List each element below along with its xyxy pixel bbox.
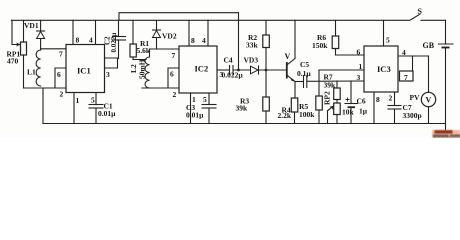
inductor L2 (129, 49, 150, 88)
resistor R4 (278, 98, 298, 124)
resistor R5 (299, 96, 322, 124)
pin 3 label IC3 (357, 73, 361, 82)
pin 6 box IC1 (55, 68, 66, 88)
svg-text:1: 1 (76, 96, 80, 105)
pin 1 wire IC1 (74, 93, 80, 124)
pin 8 wire IC1 (73, 20, 80, 44)
svg-text:7: 7 (59, 50, 63, 59)
wire top rail right of switch to battery (421, 19, 446, 21)
wire ground drop from bus (42, 88, 44, 124)
svg-text:5: 5 (386, 36, 390, 45)
svg-text:wwww.mmmm: wwww.mmmm (432, 134, 460, 139)
pin 3 wire IC2 (217, 70, 230, 79)
svg-text:GB: GB (423, 41, 435, 50)
svg-text:470: 470 (7, 57, 19, 66)
pin 5 wire IC3 (384, 20, 391, 46)
svg-text:V: V (426, 96, 432, 105)
svg-text:3: 3 (106, 70, 110, 79)
pin 8 wire IC3 (374, 92, 380, 124)
resistor R2 (246, 20, 269, 70)
capacitor C6 electrolytic (345, 81, 368, 124)
svg-text:4: 4 (202, 36, 206, 45)
wire IC2 pin7 (150, 49, 180, 60)
capacitor C7 on pin 2 (388, 92, 422, 124)
inductor L1 (27, 50, 41, 86)
svg-text:4: 4 (89, 36, 93, 45)
svg-text:3300p: 3300p (403, 111, 422, 120)
wire bypass drop to VD3 node (238, 20, 240, 70)
wire pin1 node vertical to R5 (318, 70, 320, 96)
svg-text:50mH: 50mH (138, 59, 147, 79)
svg-text:33k: 33k (246, 41, 259, 50)
pin 8 wire IC2 (189, 20, 195, 46)
capacitor C2 (104, 20, 126, 58)
svg-text:6: 6 (170, 70, 174, 79)
svg-text:IC3: IC3 (377, 64, 391, 74)
svg-text:6: 6 (57, 70, 61, 79)
pin 6 box IC2 (168, 68, 179, 88)
svg-text:2: 2 (389, 94, 393, 103)
node junction dots (237, 69, 267, 72)
wire bottom rail (43, 123, 446, 125)
svg-text:7: 7 (404, 73, 408, 82)
svg-text:0.022µ: 0.022µ (222, 71, 244, 80)
switch S (410, 7, 423, 20)
svg-text:1: 1 (359, 62, 363, 71)
resistor R6 (312, 20, 339, 55)
svg-text:4: 4 (402, 48, 406, 57)
wire left border to RP1 wiper (12, 20, 21, 46)
svg-text:100k: 100k (299, 110, 315, 119)
svg-text:39k: 39k (324, 81, 337, 90)
svg-text:5: 5 (91, 96, 95, 105)
pin 4 wire IC1 (89, 20, 96, 44)
battery GB (423, 20, 454, 131)
pin 3 box IC1 (105, 58, 118, 79)
svg-text:39k: 39k (236, 104, 249, 113)
wire L2 bottom bus to IC2 pin2 (142, 88, 179, 99)
svg-text:V: V (285, 52, 291, 61)
svg-text:VD1: VD1 (24, 21, 39, 30)
svg-text:0.01µ: 0.01µ (98, 109, 116, 118)
watermark (432, 130, 460, 140)
pin 7 box IC3 (400, 71, 414, 82)
transistor V (285, 20, 296, 98)
diode VD1 (24, 20, 45, 50)
potentiometer RP1 (7, 20, 27, 88)
svg-text:6: 6 (357, 48, 361, 57)
svg-text:C6: C6 (357, 97, 366, 106)
svg-text:0.01µ: 0.01µ (186, 111, 204, 120)
capacitor C4 (222, 56, 251, 80)
capacitor C3 on pin 5 (186, 93, 216, 124)
resistor R1 (130, 20, 151, 59)
svg-text:2.2k: 2.2k (278, 111, 292, 120)
svg-text:0.1µ: 0.1µ (297, 69, 311, 78)
voltmeter PV (410, 56, 436, 124)
wire top rail left of switch (12, 19, 410, 21)
svg-text:1µ: 1µ (359, 107, 368, 116)
capacitor C1 on pin 5 (89, 93, 116, 124)
svg-text:10k: 10k (342, 108, 355, 117)
wire IC1 pin7 from VD1/L1 node (41, 48, 66, 50)
diode VD2 (153, 20, 177, 49)
pin 7 label IC1 (59, 50, 63, 59)
diode VD3 (244, 56, 287, 75)
svg-text:2: 2 (173, 90, 177, 99)
pin 1 wire IC2 (191, 93, 197, 124)
svg-text:5.6k: 5.6k (137, 46, 151, 55)
svg-text:0.022µ: 0.022µ (110, 33, 118, 53)
pin 2 label IC1 (60, 90, 64, 99)
svg-text:PV: PV (410, 93, 421, 102)
svg-text:8: 8 (191, 36, 195, 45)
svg-text:2: 2 (60, 90, 64, 99)
resistor R7 (324, 73, 341, 104)
svg-text:150k: 150k (312, 41, 328, 50)
pin 6 wire IC3 (336, 48, 365, 57)
svg-text:VD2: VD2 (162, 32, 177, 41)
svg-text:RP2: RP2 (323, 91, 332, 105)
resistor R3 (236, 70, 270, 124)
wire L1/RP1 bottom bus to IC1 pin2 (24, 87, 67, 89)
op-amp IC2 (179, 46, 217, 93)
svg-text:3: 3 (357, 73, 361, 82)
svg-text:S: S (418, 7, 423, 16)
svg-text:C5: C5 (300, 60, 309, 69)
svg-text:IC2: IC2 (195, 64, 209, 74)
svg-text:L1: L1 (27, 68, 36, 77)
svg-text:IC1: IC1 (77, 66, 91, 76)
svg-text:8: 8 (376, 95, 380, 104)
pin 4 wire IC2 (202, 20, 208, 46)
potentiometer RP2 (323, 91, 355, 123)
op-amp IC3 (364, 46, 398, 92)
wire IC3 pin1 (319, 69, 364, 71)
svg-text:C4: C4 (224, 56, 233, 65)
pin 1 label IC3 (359, 62, 363, 71)
pin 4 wire IC3 (398, 48, 429, 71)
svg-text:VD3: VD3 (244, 56, 259, 65)
capacitor C5 (295, 60, 364, 88)
wire bypass jumper (119, 13, 239, 21)
svg-text:8: 8 (76, 36, 80, 45)
svg-text:7: 7 (172, 51, 176, 60)
op-amp IC1 (66, 45, 105, 93)
svg-text:5: 5 (203, 95, 207, 104)
